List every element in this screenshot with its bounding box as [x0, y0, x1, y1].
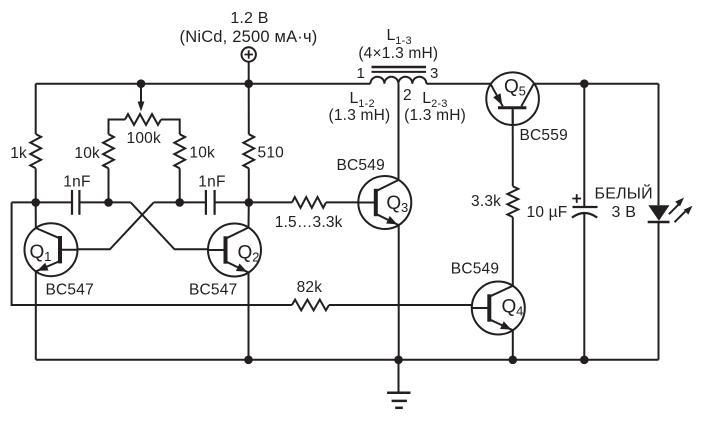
- svg-text:10 µF: 10 µF: [527, 204, 568, 221]
- svg-text:L: L: [387, 27, 396, 44]
- svg-text:10k: 10k: [74, 145, 100, 162]
- svg-text:BC547: BC547: [189, 282, 237, 299]
- svg-text:Q: Q: [504, 77, 519, 98]
- svg-text:Q: Q: [386, 193, 401, 214]
- svg-text:(1.3 mH): (1.3 mH): [404, 107, 466, 124]
- svg-text:BC547: BC547: [46, 282, 94, 299]
- svg-text:1: 1: [44, 249, 51, 264]
- svg-text:BC559: BC559: [520, 127, 568, 144]
- svg-text:3: 3: [401, 200, 408, 215]
- svg-text:BC549: BC549: [451, 261, 499, 278]
- svg-text:Q: Q: [238, 242, 253, 263]
- svg-text:3: 3: [430, 65, 439, 82]
- svg-text:L: L: [422, 90, 431, 107]
- svg-text:BC549: BC549: [337, 157, 385, 174]
- svg-text:(NiCd, 2500 мА·ч): (NiCd, 2500 мА·ч): [180, 28, 318, 46]
- svg-text:L: L: [350, 90, 359, 107]
- svg-text:10k: 10k: [189, 145, 215, 162]
- svg-text:1k: 1k: [10, 145, 27, 162]
- svg-text:БЕЛЫЙ: БЕЛЫЙ: [595, 184, 653, 203]
- svg-text:2: 2: [252, 249, 259, 264]
- svg-text:5: 5: [519, 84, 526, 99]
- svg-text:Q: Q: [30, 242, 45, 263]
- svg-text:3 В: 3 В: [612, 204, 637, 221]
- svg-text:4: 4: [516, 304, 523, 319]
- svg-text:82k: 82k: [297, 279, 323, 296]
- svg-text:3.3k: 3.3k: [471, 193, 501, 210]
- svg-text:1nF: 1nF: [198, 173, 225, 190]
- svg-text:Q: Q: [502, 297, 517, 318]
- svg-text:1.5…3.3k: 1.5…3.3k: [275, 214, 343, 231]
- svg-text:1: 1: [357, 65, 366, 82]
- svg-text:(1.3 mH): (1.3 mH): [329, 107, 391, 124]
- svg-text:2: 2: [403, 87, 412, 104]
- svg-text:1.2 В: 1.2 В: [230, 10, 268, 27]
- svg-text:100k: 100k: [127, 130, 161, 147]
- svg-text:1nF: 1nF: [63, 173, 90, 190]
- svg-text:510: 510: [258, 145, 285, 162]
- svg-text:(4×1.3 mH): (4×1.3 mH): [358, 45, 438, 62]
